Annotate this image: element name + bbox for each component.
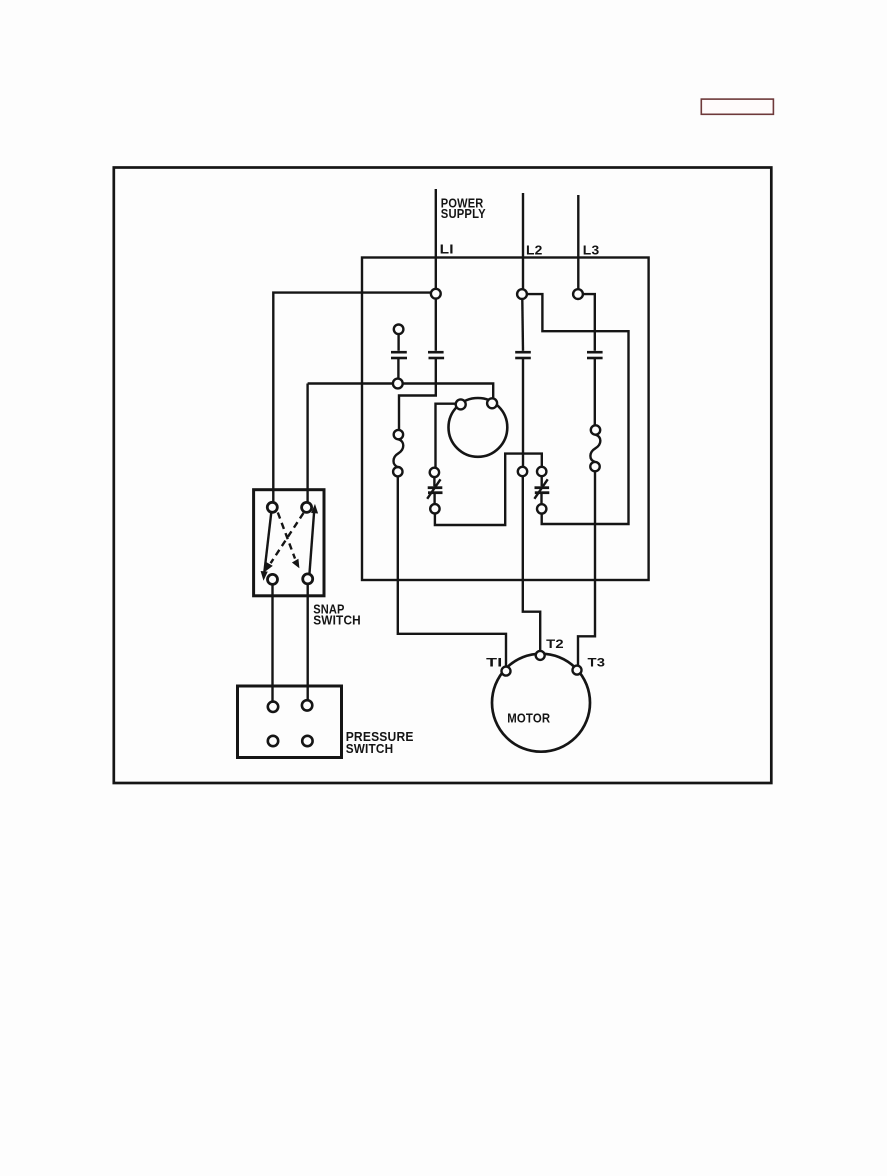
contact M1 (L1 main contact) xyxy=(428,352,444,358)
overload contact OC2 (right, NC) xyxy=(534,467,549,514)
wire coil left terminal to OL contact left xyxy=(436,404,456,468)
node L2 terminal xyxy=(517,289,527,299)
wire snap BL to pressure switch xyxy=(271,584,273,701)
contact M3 (L3 main contact) xyxy=(587,352,603,358)
node snap TL terminal xyxy=(267,502,277,512)
switch blade left (solid, arrow down) xyxy=(261,512,271,579)
node T3 terminal xyxy=(573,666,582,675)
outer border frame xyxy=(114,168,772,784)
overload heater OL3 xyxy=(590,425,600,471)
pressure switch box xyxy=(238,686,342,758)
node T1 terminal xyxy=(502,667,511,676)
node pressure BL terminal xyxy=(268,736,278,746)
wire L2 contact down through staple xyxy=(522,359,524,467)
wire L3 contact to heater xyxy=(594,359,596,425)
svg-text:T2: T2 xyxy=(546,639,564,651)
svg-text:SWITCH: SWITCH xyxy=(313,613,361,628)
switch throw path TR-BL (dashed, arrow) xyxy=(266,513,304,570)
svg-text:L2: L2 xyxy=(526,243,543,258)
snap switch box xyxy=(254,490,324,596)
node snap BL terminal xyxy=(268,574,278,584)
node pressure TR terminal xyxy=(302,700,312,710)
node pressure TL terminal xyxy=(268,702,278,712)
starter enclosure box xyxy=(362,258,649,581)
switch throw path TL-BR (dashed, arrow) xyxy=(278,513,299,568)
motor M1 xyxy=(492,654,590,752)
node L1 terminal xyxy=(431,289,441,299)
node T2 terminal xyxy=(536,651,545,660)
node L3 terminal xyxy=(573,289,583,299)
red revision box xyxy=(701,99,773,114)
wire OC1 bottom loop to staple xyxy=(435,454,542,525)
svg-text:MOTOR: MOTOR xyxy=(507,711,550,725)
wire L1-node to snap switch upper-left xyxy=(273,293,431,503)
wire snap upper-right drop xyxy=(306,384,308,503)
overload heater OL1 xyxy=(393,430,403,477)
node pressure BR terminal xyxy=(302,736,312,746)
node snap TR terminal xyxy=(302,502,312,512)
svg-text:LI: LI xyxy=(440,241,454,256)
wire L1 supply drop xyxy=(435,189,437,289)
node coil right terminal xyxy=(487,398,497,408)
wire L1 contact to heater jog xyxy=(399,359,436,430)
contact M2 (L2 main contact) xyxy=(515,352,531,358)
svg-text:SWITCH: SWITCH xyxy=(346,741,394,756)
node snap BR terminal xyxy=(303,574,313,584)
wire L3 supply drop xyxy=(577,195,579,289)
wire L1 below node to contact xyxy=(435,299,437,351)
wire snap BR to pressure switch xyxy=(307,584,309,700)
wire L2 to T2 xyxy=(523,476,540,651)
wire heater to T1 xyxy=(398,476,506,666)
wire snap switch upper-right to junction xyxy=(308,382,393,384)
svg-text:T3: T3 xyxy=(588,658,606,670)
contact Maux bars xyxy=(391,352,407,358)
wire aux stem xyxy=(397,334,399,351)
wire L2 supply drop xyxy=(522,193,524,289)
switch blade right (solid, arrow up) xyxy=(309,505,317,574)
svg-text:L3: L3 xyxy=(583,243,600,258)
wire junction to coil right terminal xyxy=(403,384,494,399)
svg-text:TI: TI xyxy=(486,658,503,670)
wire L3 heater to T3 xyxy=(578,471,595,665)
node coil left terminal xyxy=(456,399,466,409)
wire L3 node to contact jog xyxy=(583,294,595,351)
node L2 mid terminal xyxy=(518,467,527,476)
coil M (starter coil) xyxy=(449,398,508,457)
overload contact OC1 (left, NC) xyxy=(427,468,442,514)
contact Maux (holding interlock) top terminal xyxy=(394,325,404,335)
svg-text:SUPPLY: SUPPLY xyxy=(441,206,486,221)
wire aux to junction xyxy=(397,359,399,379)
wire L2 below node to contact xyxy=(521,299,524,351)
wire OC2 loop up to L2 node xyxy=(527,294,629,524)
node junction J1 xyxy=(393,379,403,389)
